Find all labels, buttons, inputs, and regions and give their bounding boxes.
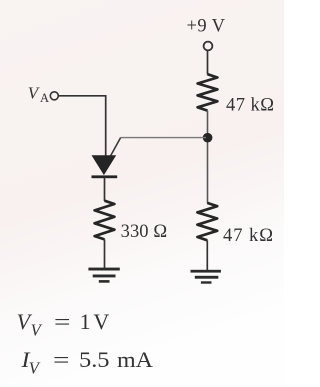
wire R2 to ground: [206, 240, 208, 270]
wire R1 to R2: [207, 111, 209, 204]
resistor R3 zigzag: [95, 201, 115, 240]
resistor R1 zigzag: [198, 74, 218, 110]
wire supply to R1: [207, 51, 209, 75]
svg-text:47 kΩ: 47 kΩ: [226, 95, 274, 115]
resistor R2 zigzag: [197, 203, 217, 240]
svg-text:=: =: [53, 347, 70, 372]
terminal +9V: [204, 42, 213, 51]
ground left: [88, 268, 119, 283]
wire diagonal to diode anode: [111, 138, 121, 156]
svg-text:1: 1: [80, 309, 91, 334]
ground right: [191, 270, 221, 284]
svg-text:330 Ω: 330 Ω: [121, 222, 168, 242]
svg-text:A: A: [40, 91, 49, 105]
diode D1 triangle: [92, 156, 115, 175]
terminal VA: [50, 92, 58, 100]
svg-text:mA: mA: [117, 347, 153, 372]
wire diode to R3: [104, 177, 106, 201]
svg-text:47 kΩ: 47 kΩ: [223, 226, 273, 246]
svg-text:=: =: [54, 309, 71, 334]
wire R3 to ground: [104, 239, 106, 268]
wire VA to diode: [58, 96, 105, 156]
svg-text:V: V: [93, 309, 109, 334]
svg-text:+9 V: +9 V: [187, 16, 226, 36]
svg-text:5.5: 5.5: [79, 347, 110, 372]
diode D1 cathode bar: [92, 175, 118, 178]
wire node to left branch: [121, 137, 206, 139]
node junction dot: [203, 133, 213, 143]
